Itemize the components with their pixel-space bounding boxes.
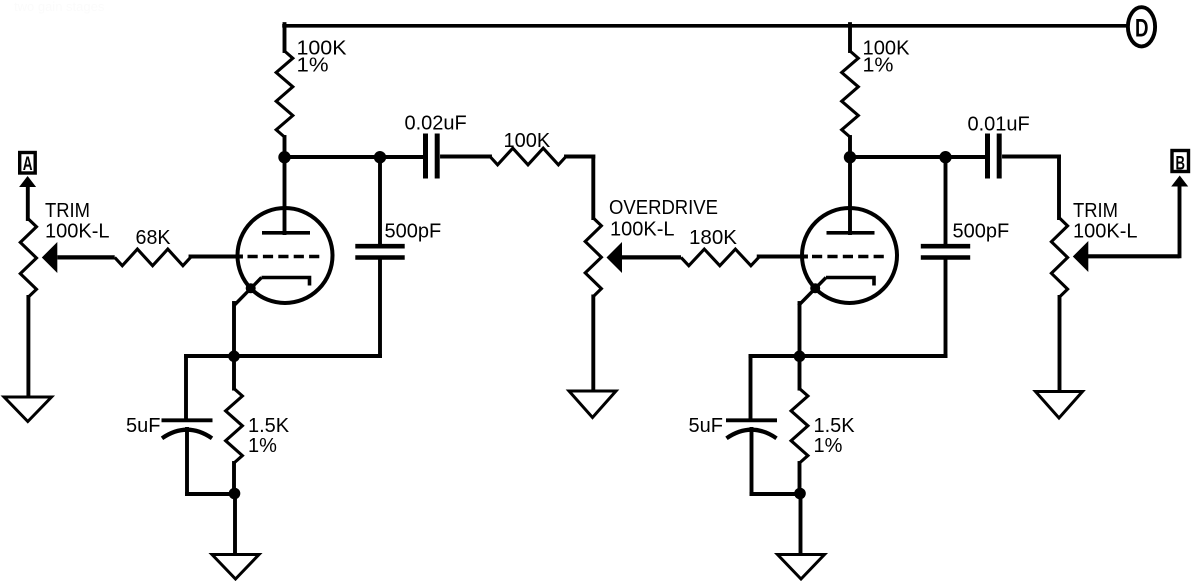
svg-text:1.5K: 1.5K bbox=[814, 415, 856, 437]
svg-text:B: B bbox=[1176, 153, 1186, 174]
svg-text:TRIM: TRIM bbox=[45, 200, 90, 222]
svg-text:D: D bbox=[1135, 14, 1149, 42]
svg-text:two gain stages: two gain stages bbox=[14, 0, 105, 14]
svg-text:100K-L: 100K-L bbox=[1073, 221, 1138, 243]
svg-text:A: A bbox=[23, 154, 33, 175]
svg-text:0.02uF: 0.02uF bbox=[405, 113, 467, 135]
svg-text:1%: 1% bbox=[297, 55, 329, 77]
svg-text:180K: 180K bbox=[689, 227, 738, 249]
svg-text:0.01uF: 0.01uF bbox=[968, 114, 1030, 136]
svg-text:1%: 1% bbox=[248, 435, 277, 457]
svg-text:100K-L: 100K-L bbox=[610, 219, 675, 241]
svg-text:1%: 1% bbox=[814, 435, 843, 457]
svg-text:68K: 68K bbox=[136, 227, 172, 249]
svg-text:OVERDRIVE: OVERDRIVE bbox=[609, 197, 718, 219]
svg-text:100K-L: 100K-L bbox=[45, 221, 110, 243]
svg-text:100K: 100K bbox=[504, 130, 551, 152]
svg-text:500pF: 500pF bbox=[385, 221, 442, 243]
svg-text:5uF: 5uF bbox=[689, 415, 723, 437]
svg-text:TRIM: TRIM bbox=[1073, 200, 1118, 222]
svg-text:5uF: 5uF bbox=[126, 415, 160, 437]
svg-text:500pF: 500pF bbox=[953, 221, 1010, 243]
svg-text:1%: 1% bbox=[863, 55, 894, 77]
svg-text:1.5K: 1.5K bbox=[248, 415, 290, 437]
